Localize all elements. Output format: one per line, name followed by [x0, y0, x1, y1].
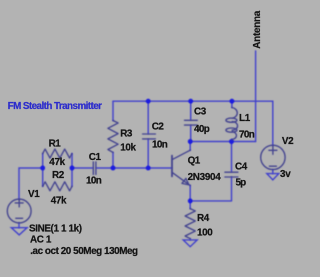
svg-text:V1: V1 [28, 189, 40, 200]
node dot collector [188, 139, 193, 144]
resistor R1 zigzag [43, 149, 72, 158]
voltage source V1 [7, 199, 31, 223]
node dot L1 top [230, 99, 235, 104]
svg-text:5p: 5p [236, 177, 247, 188]
wire C3 bottom [190, 126, 192, 142]
svg-text:C4: C4 [235, 161, 248, 172]
svg-text:R1: R1 [49, 139, 62, 150]
wire R3 bottom stub [112, 152, 114, 168]
capacitor C3 plates [185, 120, 198, 125]
ground V1 [11, 228, 27, 235]
capacitor C4 plates [225, 172, 238, 177]
wire signal rail left [19, 168, 43, 199]
wire C1 to Q1 base [96, 167, 171, 169]
svg-text:100: 100 [197, 228, 213, 239]
svg-text:V2: V2 [282, 136, 294, 147]
svg-text:R3: R3 [120, 129, 133, 140]
inductor L1 coil [232, 108, 237, 119]
wire C3 top [190, 101, 192, 120]
svg-text:10n: 10n [86, 175, 102, 186]
node dot C2 bottom [146, 166, 151, 171]
svg-text:C3: C3 [194, 106, 207, 117]
wire R1R2 left vertical [42, 154, 44, 187]
svg-text:R4: R4 [197, 213, 210, 224]
wire V1 ground stub [18, 223, 20, 228]
wire R3 top stub [112, 101, 114, 120]
svg-text:3v: 3v [280, 169, 291, 180]
svg-text:10k: 10k [120, 142, 136, 153]
wire C2 top [147, 101, 149, 134]
svg-text:C2: C2 [152, 121, 165, 132]
resistor R4 zigzag [185, 209, 195, 239]
node dot emitter [188, 199, 193, 204]
node dot R1R2 right [70, 166, 75, 171]
ground V2 [267, 174, 279, 180]
node dot C3 top [188, 99, 193, 104]
wire top rail [113, 101, 273, 145]
svg-text:47k: 47k [51, 195, 67, 206]
capacitor C2 plates [143, 134, 156, 139]
node dot C2 top [146, 99, 151, 104]
svg-text:AC 1: AC 1 [30, 234, 52, 245]
wire L1 bottom stub [231, 139, 233, 141]
svg-text:.ac oct 20 50Meg 130Meg: .ac oct 20 50Meg 130Meg [30, 246, 138, 257]
wire C4 bottom [231, 177, 233, 201]
voltage source V2 [261, 145, 285, 169]
ground R4 [183, 240, 197, 247]
transistor Q1 [172, 150, 190, 185]
svg-text:10n: 10n [152, 139, 168, 150]
svg-text:FM Stealth Transmitter: FM Stealth Transmitter [8, 101, 103, 112]
wire C2 bottom [147, 139, 149, 168]
wire R1R2 right vertical [71, 154, 73, 187]
svg-text:40p: 40p [194, 124, 210, 135]
wire R4 top stub [189, 201, 191, 209]
node dot R3 bottom [111, 166, 116, 171]
wire L1 top stub [231, 101, 233, 107]
svg-text:Antenna: Antenna [252, 10, 263, 49]
resistor R3 zigzag [108, 121, 118, 153]
resistor R2 zigzag [43, 182, 72, 191]
svg-text:C1: C1 [89, 152, 102, 163]
svg-text:2N3904: 2N3904 [188, 172, 222, 183]
wire R1R2 to C1 [72, 167, 93, 169]
wire Q1 collector stub [189, 142, 191, 151]
capacitor C1 plates [93, 162, 96, 175]
svg-text:70n: 70n [239, 130, 255, 141]
wire R4 bottom stub [189, 239, 191, 240]
node dot L1 bottom rail [229, 139, 234, 144]
wire V2 ground stub [272, 170, 274, 174]
svg-text:SINE(1 1 1k): SINE(1 1 1k) [29, 223, 82, 234]
svg-text:R2: R2 [52, 170, 65, 181]
wire C4 top [231, 142, 233, 172]
wire emitter rail [190, 200, 231, 202]
svg-text:L1: L1 [239, 113, 251, 124]
svg-text:Q1: Q1 [188, 155, 201, 166]
node dot R1R2 left [40, 166, 45, 171]
wire Q1 emitter stub [189, 186, 191, 201]
wire antenna vertical [255, 51, 257, 142]
svg-text:47k: 47k [49, 157, 65, 168]
wire collector rail [190, 141, 255, 143]
